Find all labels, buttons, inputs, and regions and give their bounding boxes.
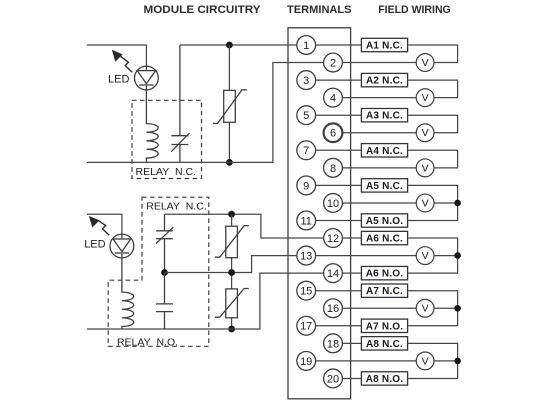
terminal 8 <box>324 158 343 177</box>
wire: circuit 1 top lead from left to LED branch corner <box>87 45 147 66</box>
varistor MOV lower (circuit 2) <box>215 289 249 318</box>
svg-text:V: V <box>422 92 429 104</box>
svg-text:V: V <box>422 127 429 139</box>
terminal 15 <box>297 281 316 300</box>
voltmeter / load V (terminal 8 row) <box>416 159 434 177</box>
junction dot: circuit 2 varistor top node <box>228 211 235 218</box>
wire: circuit 2 middle wire to terminal 13 <box>165 256 297 273</box>
wire: terminal 4 row line to field <box>342 97 417 99</box>
wire: terminal 9 row line to field <box>316 184 362 186</box>
field contact box A7 N.C. (terminal 15) <box>361 284 407 297</box>
terminal 1 <box>297 36 316 55</box>
svg-text:TERMINALS: TERMINALS <box>287 4 352 16</box>
svg-text:LED: LED <box>84 239 105 251</box>
wire: terminal 13 row line to field <box>316 255 418 257</box>
wire: terminal 18 row line to field <box>342 342 361 344</box>
svg-text:12: 12 <box>327 233 339 245</box>
field contact box A4 N.C. (terminal 7) <box>361 144 407 157</box>
wire: terminal 17 row line to field <box>316 325 362 327</box>
svg-text:19: 19 <box>300 356 312 368</box>
terminal 18 <box>324 334 343 353</box>
terminal 3 <box>297 71 316 90</box>
field contact box A1 N.C. (terminal 1) <box>361 38 407 51</box>
svg-text:16: 16 <box>327 303 339 315</box>
voltmeter / load V (terminal 16 row) <box>416 299 434 317</box>
wire: field bus A7 N.C. / V / A7 N.O. <box>408 291 458 326</box>
field contact box A6 N.C. (terminal 12) <box>361 231 407 244</box>
svg-text:A6 N.C.: A6 N.C. <box>366 234 403 245</box>
wire: terminal 8 row line to field <box>342 167 417 169</box>
svg-text:RELAY N.C.: RELAY N.C. <box>146 201 207 213</box>
svg-text:A7 N.C.: A7 N.C. <box>366 286 403 297</box>
N.C. contact (crossed capacitor symbol, circuit 1) <box>171 45 189 162</box>
svg-text:13: 13 <box>300 251 312 263</box>
field contact box A7 N.O. (terminal 17) <box>361 319 407 332</box>
svg-text:15: 15 <box>300 286 312 298</box>
dashed enclosure RELAY N.C. (circuit 1) <box>132 100 202 178</box>
wire: field loop A1 N.C. to V <box>408 45 458 63</box>
wire: terminal 2 row line to field <box>342 62 417 64</box>
wire: circuit 2 top lead from left to LED branch corner <box>87 214 122 234</box>
svg-text:2: 2 <box>330 57 336 69</box>
svg-text:RELAY N.C.: RELAY N.C. <box>136 166 197 178</box>
wire: circuit 1 bottom rail and riser to terminal 2 <box>87 63 324 163</box>
LED light-emission arrow (circuit 2) <box>90 217 110 236</box>
wire: circuit 2 bottom riser to terminal 14 <box>232 273 324 329</box>
svg-text:A2 N.C.: A2 N.C. <box>366 76 403 87</box>
terminal 2 <box>324 53 343 72</box>
svg-text:11: 11 <box>300 215 311 227</box>
wire: terminal 7 row line to field <box>316 149 362 151</box>
svg-text:LED: LED <box>108 73 129 85</box>
wire: terminal 19 row line to field <box>316 360 418 362</box>
svg-text:A5 N.O.: A5 N.O. <box>366 216 404 227</box>
svg-text:9: 9 <box>303 180 309 192</box>
junction dot: circuit 1 top node <box>226 42 233 49</box>
terminal 9 <box>297 176 316 195</box>
terminal 12 <box>324 229 343 248</box>
terminal 10 <box>324 194 343 213</box>
junction dot: circuit 2 varistor middle node <box>228 269 235 276</box>
junction dot: circuit 2 contact midpoint node <box>161 269 168 276</box>
wire: circuit 1 varistor branch vertical <box>228 45 230 162</box>
terminal 16 <box>324 299 343 318</box>
LED indicator D1 (circuit 1) <box>135 66 159 90</box>
voltmeter / load V (terminal 10 row) <box>416 194 434 212</box>
svg-text:A4 N.C.: A4 N.C. <box>366 146 403 157</box>
relay coil (circuit 2) <box>122 258 134 329</box>
wire: terminal 1 row line to field <box>316 44 362 46</box>
wire: circuit 2 bottom rail <box>87 328 232 330</box>
svg-text:17: 17 <box>300 321 312 333</box>
wire: terminal 15 row line to field <box>316 290 362 292</box>
svg-text:V: V <box>422 162 429 174</box>
wire: field loop A4 N.C. to V <box>408 150 458 168</box>
wire: field bus A8 N.C. / V / A8 N.O. <box>408 343 458 378</box>
wire: field bus A5 N.C. / V / A5 N.O. <box>408 185 458 220</box>
svg-text:7: 7 <box>303 145 309 157</box>
terminal 17 <box>297 316 316 335</box>
field contact box A3 N.C. (terminal 5) <box>361 109 407 122</box>
svg-text:V: V <box>422 303 429 315</box>
varistor MOV (circuit 1) <box>213 90 247 124</box>
N.C. contact (crossed capacitor symbol, circuit 2) <box>156 214 173 272</box>
wire: circuit 2 N.C. top wire to terminal 12 <box>165 214 324 238</box>
field contact box A8 N.C. (terminal 18) <box>361 337 407 350</box>
svg-text:20: 20 <box>327 373 339 385</box>
wire: field loop A3 N.C. to V <box>408 115 458 133</box>
svg-text:V: V <box>422 355 429 367</box>
LED indicator D2 (circuit 2) <box>110 234 134 258</box>
svg-text:RELAY N.O.: RELAY N.O. <box>117 336 178 348</box>
field contact box A5 N.O. (terminal 11) <box>361 214 407 227</box>
field contact box A8 N.O. (terminal 20) <box>361 372 407 385</box>
svg-text:V: V <box>422 197 429 209</box>
wire: terminal 3 row line to field <box>316 79 362 81</box>
terminal 13 <box>297 246 316 265</box>
wire: terminal 14 row line to field <box>342 272 361 274</box>
voltmeter / load V (terminal 13 row) <box>416 247 434 265</box>
N.O. contact (capacitor symbol, circuit 2) <box>156 273 173 330</box>
field contact box A6 N.O. (terminal 14) <box>361 266 407 279</box>
field contact box A2 N.C. (terminal 3) <box>361 73 407 86</box>
junction dot: field bus A8 <box>454 358 461 365</box>
svg-text:4: 4 <box>330 93 336 105</box>
terminal 20 <box>324 369 343 388</box>
svg-text:FIELD WIRING: FIELD WIRING <box>378 4 451 16</box>
voltmeter / load V (terminal 2 row) <box>416 54 434 72</box>
wire: terminal 12 row line to field <box>342 237 361 239</box>
voltmeter / load V (terminal 4 row) <box>416 89 434 107</box>
svg-text:A5 N.C.: A5 N.C. <box>366 181 403 192</box>
terminal 4 <box>324 88 343 107</box>
junction dot: circuit 2 bottom node <box>228 326 235 333</box>
wire: terminal 11 row line to field <box>316 220 362 222</box>
wire: circuit 2 varistor branch verticals <box>231 214 233 329</box>
svg-text:A1 N.C.: A1 N.C. <box>366 41 403 52</box>
varistor MOV upper (circuit 2) <box>215 226 249 258</box>
terminal 5 <box>297 106 316 125</box>
wire: terminal 6 row line to field <box>342 132 417 134</box>
svg-text:A8 N.O.: A8 N.O. <box>366 374 404 385</box>
wire: field loop A2 N.C. to V <box>408 80 458 98</box>
terminal 6 <box>324 123 343 142</box>
relay coil (circuit 1) <box>146 90 158 162</box>
wire: terminal 16 row line to field <box>342 307 417 309</box>
svg-text:5: 5 <box>303 110 309 122</box>
wire: terminal 20 row line to field <box>342 377 361 379</box>
terminal 14 <box>324 264 343 283</box>
svg-text:MODULE CIRCUITRY: MODULE CIRCUITRY <box>144 4 262 16</box>
terminal 7 <box>297 141 316 160</box>
svg-text:1: 1 <box>303 40 309 52</box>
svg-text:A8 N.C.: A8 N.C. <box>366 339 403 350</box>
junction dot: field bus A7 <box>454 305 461 312</box>
svg-text:14: 14 <box>327 268 339 280</box>
junction dot: field bus A5 <box>454 200 461 207</box>
svg-text:V: V <box>422 57 429 69</box>
wire: terminal 10 row line to field <box>342 202 417 204</box>
LED light-emission arrow (circuit 1) <box>113 51 133 73</box>
junction dot: field bus A6 <box>454 252 461 259</box>
field contact box A5 N.C. (terminal 9) <box>361 179 407 192</box>
terminal 19 <box>297 352 316 371</box>
svg-text:A6 N.O.: A6 N.O. <box>366 269 404 280</box>
terminal 11 <box>297 211 316 230</box>
terminal strip outline <box>288 28 351 399</box>
voltmeter / load V (terminal 6 row) <box>416 124 434 142</box>
svg-text:A3 N.C.: A3 N.C. <box>366 111 403 122</box>
wire: terminal 5 row line to field <box>316 114 362 116</box>
svg-text:8: 8 <box>330 163 336 175</box>
junction dot: circuit 1 bottom node <box>226 159 233 166</box>
svg-text:10: 10 <box>327 198 339 210</box>
dashed enclosure RELAY N.C. / RELAY N.O. (circuit 2, stepped outline) <box>108 197 209 346</box>
svg-text:18: 18 <box>327 338 339 350</box>
voltmeter / load V (terminal 19 row) <box>416 352 434 370</box>
wire: field bus A6 N.C. / V / A6 N.O. <box>408 238 458 273</box>
svg-text:A7 N.O.: A7 N.O. <box>366 321 404 332</box>
svg-text:6: 6 <box>330 128 336 140</box>
svg-text:3: 3 <box>303 75 309 87</box>
wire: circuit 1 N.C. contact branch to terminal 1 <box>180 44 297 46</box>
svg-text:V: V <box>422 250 429 262</box>
